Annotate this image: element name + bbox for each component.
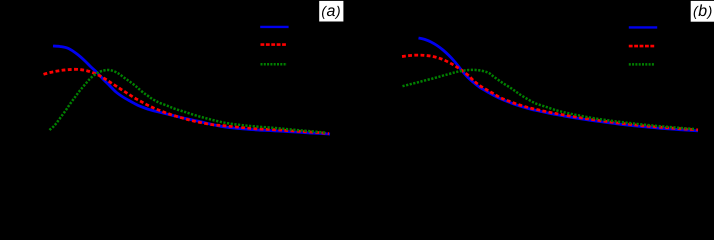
panel (a) red dashed curve <box>44 69 330 133</box>
panel (b) red dashed curve <box>402 55 698 130</box>
legend (b) green dotted line <box>629 63 655 66</box>
panel (a) blue solid curve <box>53 46 330 134</box>
legend (b) blue solid line <box>629 26 657 28</box>
legend (a) blue solid line <box>260 26 288 28</box>
panel (a) green dotted curve <box>50 70 327 133</box>
legend (a) green dotted line <box>261 63 288 66</box>
panel label (b) white box <box>691 1 714 22</box>
panel label (a) text <box>322 6 340 19</box>
legend (b) red dashed line <box>629 45 655 48</box>
panel label (b) text <box>694 4 712 18</box>
panel (b) green dotted curve <box>403 70 695 129</box>
panel label (a) white box <box>319 1 343 22</box>
legend (a) red dashed line <box>261 43 288 46</box>
panel (b) blue solid curve <box>419 38 699 131</box>
